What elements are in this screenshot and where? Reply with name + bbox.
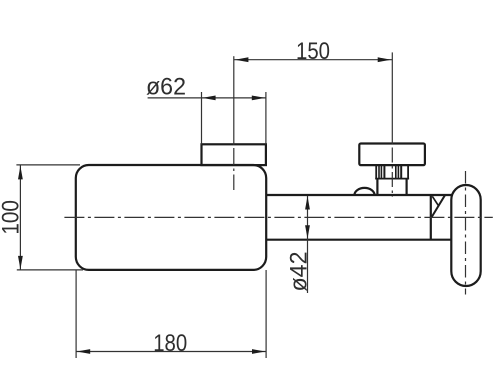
svg-text:100: 100 bbox=[0, 200, 25, 235]
svg-text:180: 180 bbox=[153, 330, 187, 357]
svg-text:ø62: ø62 bbox=[146, 74, 186, 101]
svg-text:150: 150 bbox=[296, 38, 330, 65]
svg-text:ø42: ø42 bbox=[286, 252, 313, 292]
